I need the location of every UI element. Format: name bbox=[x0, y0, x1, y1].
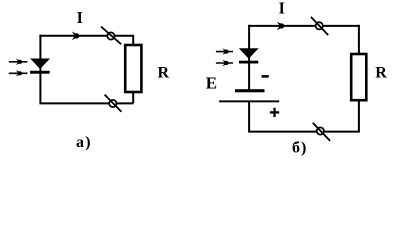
battery E: long positive plate bbox=[219, 100, 279, 102]
wire: left branch of circuit b from battery positive plate down to bottom wire bbox=[248, 102, 250, 132]
current arrowhead on top wire (b) bbox=[277, 22, 286, 31]
meter (crossed circle) on bottom wire of circuit b bbox=[313, 123, 330, 141]
svg-text:a): a) bbox=[76, 134, 92, 151]
wire: top horizontal of circuit b bbox=[248, 25, 360, 27]
current arrowhead on top wire (a) bbox=[72, 32, 81, 41]
wire: right branch of circuit b below resistor R bbox=[358, 100, 360, 131]
light arrow 2 into photodiode (b) bbox=[216, 60, 233, 66]
photodiode VD1 (circuit a): triangle bbox=[30, 59, 50, 70]
label E (EMF source) bbox=[206, 73, 217, 92]
label I (current, circuit b) bbox=[279, 0, 286, 18]
wire: stub from resistor R (a) down to bottom wire bbox=[132, 92, 134, 103]
svg-text:I: I bbox=[77, 8, 84, 27]
wire: stub from top wire down to resistor R (a) bbox=[132, 35, 134, 45]
label plus sign at battery positive plate bbox=[270, 108, 279, 117]
wire: top horizontal of circuit a bbox=[39, 35, 133, 37]
svg-text:R: R bbox=[158, 65, 170, 82]
label a) caption bbox=[76, 134, 92, 151]
svg-text:R: R bbox=[375, 65, 387, 82]
wire: right branch of circuit b down to resistor R bbox=[358, 25, 360, 54]
svg-text:I: I bbox=[279, 0, 286, 18]
label R (circuit a) bbox=[158, 65, 170, 82]
meter (crossed circle) on top wire of circuit b bbox=[311, 17, 328, 35]
battery E: short negative plate bbox=[235, 89, 265, 92]
photodiode VD1 (circuit a): cathode bar bbox=[30, 71, 50, 74]
label R (circuit b) bbox=[375, 65, 387, 82]
svg-text:E: E bbox=[206, 73, 217, 92]
meter (crossed circle) on bottom wire of circuit a bbox=[105, 95, 122, 112]
svg-text:б): б) bbox=[292, 140, 307, 157]
light arrow 2 into photodiode (a) bbox=[9, 70, 28, 76]
photodiode VD2 (circuit b): cathode bar bbox=[239, 61, 258, 64]
light arrow 1 into photodiode (a) bbox=[9, 59, 28, 65]
photodiode VD2 (circuit b): triangle bbox=[239, 48, 259, 59]
meter (crossed circle) on top wire of circuit a bbox=[101, 27, 121, 45]
wire: left branch of circuit b from top corner through photodiode to battery negative plate bbox=[248, 25, 250, 90]
label minus sign at battery negative plate bbox=[262, 75, 269, 78]
resistor R (circuit b) bbox=[351, 54, 366, 100]
resistor R (circuit a) bbox=[125, 45, 141, 92]
wire: bottom horizontal of circuit a bbox=[39, 102, 133, 104]
label b) caption bbox=[292, 140, 307, 157]
light arrow 1 into photodiode (b) bbox=[216, 48, 233, 54]
wire: left vertical branch of circuit a bbox=[39, 35, 41, 104]
wire: bottom horizontal of circuit b bbox=[248, 131, 360, 133]
label I (current, circuit a) bbox=[77, 8, 84, 27]
